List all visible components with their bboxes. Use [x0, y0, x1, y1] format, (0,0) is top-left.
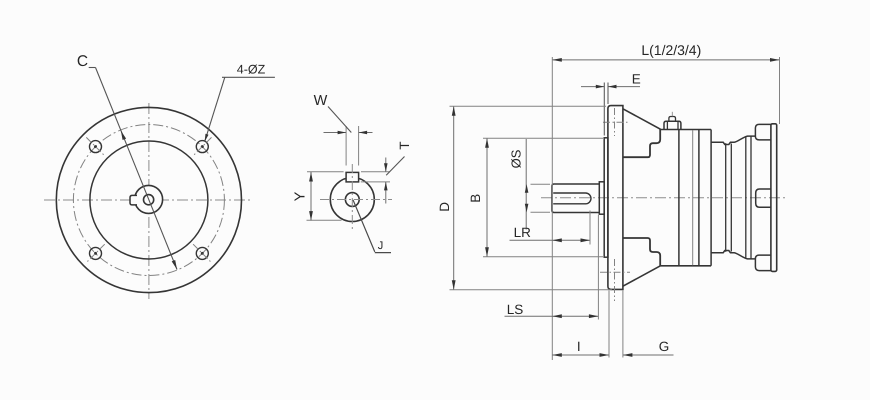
bolt hole top-left: [90, 141, 102, 153]
L right extension line: [779, 57, 781, 124]
arrowhead C top-left: [121, 131, 126, 141]
arrow LR left: [552, 238, 562, 242]
4-OZ leader: [205, 77, 225, 142]
middle lug: [756, 189, 771, 207]
C label underline: [89, 67, 96, 69]
flange inner circle: [90, 141, 208, 259]
T leader: [386, 157, 404, 176]
arrow D top: [452, 106, 456, 116]
LS dimension line: [505, 315, 599, 317]
arrow OS bottom: [525, 204, 529, 213]
arrowhead C bottom-right: [172, 260, 177, 270]
arrow W right: [359, 131, 368, 135]
arrow T lower: [384, 182, 388, 191]
E extension lines: [604, 83, 608, 136]
arrow B top: [485, 138, 489, 148]
W extension line left: [345, 126, 347, 166]
arrow LR right: [581, 238, 591, 242]
OS dimension line: [525, 139, 527, 230]
keyway top reference line: [307, 171, 390, 173]
I dimension line: [552, 354, 609, 356]
D dimension line: [453, 106, 455, 290]
LR right extension line: [589, 211, 591, 245]
svg-text:L(1/2/3/4): L(1/2/3/4): [641, 42, 701, 58]
shaft bore circle: [345, 193, 359, 207]
spigot (pilot) disc: [604, 138, 608, 257]
cone top slant: [623, 109, 661, 130]
arrow G left: [623, 353, 633, 357]
Y dimension line: [310, 172, 312, 221]
svg-text:W: W: [314, 93, 328, 109]
body ring face 711: [710, 130, 712, 266]
arrowhead 4-OZ leader: [205, 134, 209, 142]
flange bolt centerline top horizontal: [603, 121, 630, 123]
B dimension line: [486, 138, 488, 257]
OS extension lines: [531, 184, 551, 212]
arrow I right: [600, 353, 610, 357]
main axis centerline: [541, 197, 788, 199]
flange bolt centerline bottom horizontal: [600, 271, 630, 273]
svg-text:C: C: [77, 53, 88, 70]
L dimension line: [552, 59, 779, 61]
rear section top profile: [711, 136, 755, 144]
body ring edge 699: [698, 130, 700, 266]
T dimension line: [385, 158, 387, 204]
centerline horizontal: [44, 199, 253, 201]
centerline vertical: [148, 103, 150, 299]
end disc: [771, 124, 777, 272]
svg-text:E: E: [632, 72, 641, 87]
W dimension line: [324, 132, 373, 134]
J leader: [353, 200, 391, 253]
flange bolt centerline top vertical: [614, 108, 616, 136]
D extension lines: [450, 106, 613, 290]
svg-text:B: B: [468, 194, 483, 203]
arrow L left: [552, 58, 562, 62]
G extension line: [622, 291, 624, 358]
rear section bottom profile: [711, 251, 755, 259]
bolt hole BL radial centerline: [86, 244, 104, 262]
shaft keyway slot: [553, 193, 591, 204]
bottom lug: [755, 255, 771, 271]
arrow LS right: [589, 314, 599, 318]
bolt circle (dash-dot): [73, 125, 224, 276]
L left extension line (long): [551, 57, 553, 360]
ring face 745: [745, 137, 747, 259]
body ring edge 679: [678, 130, 680, 266]
W extension line right: [358, 126, 360, 166]
ring face 751: [750, 136, 752, 259]
svg-text:ØS: ØS: [509, 149, 524, 168]
connector stub: [669, 117, 676, 122]
middle view vertical centerline: [351, 164, 353, 230]
hub boss circle: [135, 185, 163, 213]
arrow E left: [596, 85, 605, 89]
E dimension line: [581, 86, 640, 88]
LS right extension line: [597, 215, 599, 320]
cone inner profile top: [623, 129, 660, 157]
arrow E right: [608, 85, 617, 89]
mounting flange plate: [608, 106, 623, 290]
arrow B bottom: [485, 247, 489, 256]
bolt hole TL radial centerline: [86, 137, 104, 155]
C diameter dimension line: [96, 68, 178, 270]
arrow OS top: [525, 184, 529, 193]
bolt hole top-right: [196, 141, 208, 153]
keyway depth reference line: [361, 181, 390, 183]
shaft circle: [330, 178, 374, 222]
B extension lines: [483, 138, 603, 257]
middle view horizontal centerline: [320, 199, 392, 201]
bolt hole bottom-right: [196, 247, 208, 259]
bolt hole BR radial centerline: [193, 244, 211, 262]
W leader: [328, 107, 351, 133]
cone inner profile bottom: [623, 238, 660, 266]
arrow Y bottom: [309, 211, 313, 221]
I right extension line: [608, 291, 610, 358]
arrow W left: [338, 131, 347, 135]
arrow Y top: [309, 172, 313, 182]
hub keyway notch: [130, 195, 137, 205]
cone bottom slant: [623, 266, 661, 287]
groove face 726: [725, 143, 727, 252]
connector internal lines: [667, 122, 678, 130]
arrow I left: [552, 353, 562, 357]
mid body top edge: [661, 129, 712, 131]
flange bolt centerline bottom vertical: [614, 259, 616, 301]
hub bore circle: [144, 195, 154, 205]
arrow D bottom: [452, 280, 456, 290]
arrow LS left: [552, 314, 562, 318]
svg-text:4-ØZ: 4-ØZ: [237, 63, 266, 77]
shaft shoulder ring: [599, 182, 604, 214]
4-OZ underline: [222, 76, 275, 78]
svg-text:T: T: [397, 141, 412, 149]
body ring edge 693 (light): [692, 130, 694, 265]
bolt hole bottom-left: [90, 247, 102, 259]
svg-text:LR: LR: [514, 225, 532, 240]
arrow T upper: [384, 163, 388, 172]
svg-text:D: D: [437, 202, 452, 212]
LR dimension line: [510, 239, 591, 241]
Y bottom extension line: [307, 219, 342, 221]
groove face 731: [730, 144, 732, 252]
top lug: [755, 124, 771, 139]
svg-text:I: I: [577, 339, 581, 354]
connector stub centerline: [671, 112, 673, 117]
shaft body: [552, 184, 599, 213]
flange outer circle: [56, 107, 241, 292]
svg-text:LS: LS: [507, 302, 524, 317]
keyway slot (white cover + outline): [346, 172, 359, 182]
svg-text:G: G: [659, 339, 670, 354]
svg-text:Y: Y: [293, 191, 309, 201]
svg-text:J: J: [378, 240, 384, 252]
connector block: [664, 121, 681, 129]
bolt hole TR radial centerline: [193, 137, 211, 155]
mid body bottom edge: [661, 265, 712, 267]
G dimension line: [623, 354, 674, 356]
arrow L right: [770, 58, 780, 62]
